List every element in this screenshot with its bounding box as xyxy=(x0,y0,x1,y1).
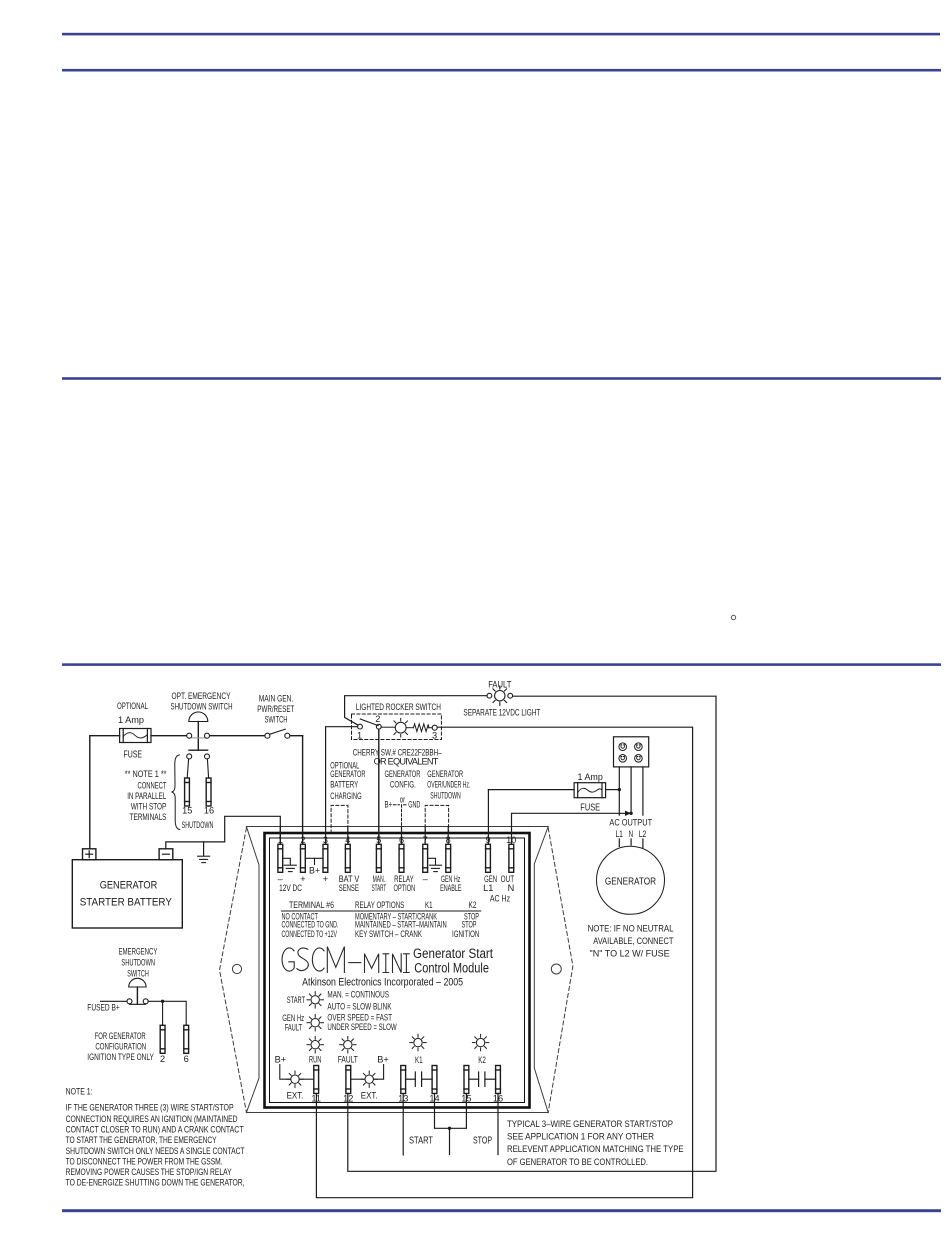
svg-text:OVER SPEED = FAST: OVER SPEED = FAST xyxy=(327,1013,392,1023)
svg-text:OVER/UNDER Hz.: OVER/UNDER Hz. xyxy=(427,780,470,790)
svg-text:TERMINALS: TERMINALS xyxy=(130,812,167,822)
terminal 13 xyxy=(401,1066,406,1094)
svg-text:CONTACT CLOSER TO RUN) AND A C: CONTACT CLOSER TO RUN) AND A CRANK CONTA… xyxy=(66,1125,244,1135)
battery BT1 labels xyxy=(80,880,173,909)
svg-text:–: – xyxy=(423,874,429,884)
wire: fault lamp to rocker contact 1 xyxy=(345,696,487,725)
rocker contact 3 xyxy=(432,725,437,730)
wire: outlet N drop xyxy=(630,767,632,813)
svg-text:FOR GENERATOR: FOR GENERATOR xyxy=(95,1031,146,1041)
fuse F1 label OPTIONAL 1 Amp xyxy=(117,701,148,725)
terminal 15 (shutdown) xyxy=(185,778,190,806)
fuse F1 (optional 1 Amp fuse) xyxy=(120,729,151,743)
svg-text:KEY SWITCH – CRANK: KEY SWITCH – CRANK xyxy=(355,929,423,939)
svg-text:MAN. = CONTINOUS: MAN. = CONTINOUS xyxy=(327,990,389,1000)
ground (terminal 1) xyxy=(284,865,296,871)
svg-text:16: 16 xyxy=(204,806,214,816)
svg-text:K2: K2 xyxy=(469,900,477,910)
svg-text:PWR/RESET: PWR/RESET xyxy=(257,704,294,714)
svg-text:3: 3 xyxy=(323,835,328,845)
svg-text:3: 3 xyxy=(432,730,437,740)
svg-text:START: START xyxy=(409,1136,433,1147)
svg-text:SHUTDOWN SWITCH: SHUTDOWN SWITCH xyxy=(171,702,233,712)
svg-text:SEPARATE 12VDC LIGHT: SEPARATE 12VDC LIGHT xyxy=(463,708,540,718)
mounting plate of module (solid outline) xyxy=(246,827,548,1113)
ground (terminal 7) xyxy=(430,865,442,871)
wire: terminal 12 to EXT led to B+ xyxy=(351,1065,384,1080)
relay contact K1 (between 13 and 14) xyxy=(406,1072,433,1086)
wire: fused B+ feed to switch S3 xyxy=(101,1000,128,1002)
svg-text:or: or xyxy=(400,794,405,804)
LED EXT (run) xyxy=(287,1071,303,1087)
terminal 9 xyxy=(486,844,491,872)
svg-text:IGNITION TYPE ONLY: IGNITION TYPE ONLY xyxy=(87,1052,154,1062)
svg-text:SHUTDOWN: SHUTDOWN xyxy=(430,791,461,801)
module U1 inner border xyxy=(270,838,525,1103)
pin 3 wire (from rocker contact 1) xyxy=(326,727,358,845)
LED K1 xyxy=(410,1034,426,1050)
svg-text:MAINTAINED – START–MAINTAIN: MAINTAINED – START–MAINTAIN xyxy=(355,920,447,930)
svg-text:FAULT: FAULT xyxy=(338,1055,358,1065)
terminal 14 xyxy=(432,1066,437,1094)
svg-text:TYPICAL 3–WIRE GENERATOR START: TYPICAL 3–WIRE GENERATOR START/STOP xyxy=(507,1119,673,1129)
svg-text:TO DISCONNECT THE POWER FROM T: TO DISCONNECT THE POWER FROM THE GSSM. xyxy=(66,1156,223,1166)
svg-text:N: N xyxy=(629,829,634,839)
pin 4 stub xyxy=(347,827,349,845)
wire: B+ to EXT led to terminal 11 xyxy=(280,1065,314,1080)
LED RUN xyxy=(307,1037,323,1053)
node: junction 14-15 xyxy=(448,1127,451,1130)
svg-text:1 Amp: 1 Amp xyxy=(578,772,603,782)
svg-text:OF GENERATOR TO BE CONTROLLED.: OF GENERATOR TO BE CONTROLLED. xyxy=(507,1157,648,1167)
wire: ground stub from battery minus wire xyxy=(203,842,205,856)
svg-text:REMOVING POWER CAUSES THE STOP: REMOVING POWER CAUSES THE STOP/IGN RELAY xyxy=(66,1167,232,1177)
LED FAULT xyxy=(340,1037,356,1053)
svg-text:TO DE-ENERGIZE SHUTTING DOWN T: TO DE-ENERGIZE SHUTTING DOWN THE GENERAT… xyxy=(66,1178,245,1188)
svg-text:RUN: RUN xyxy=(309,1055,321,1065)
terminal 1 xyxy=(278,844,283,872)
LED START xyxy=(307,992,323,1008)
note brace { xyxy=(172,755,180,830)
switch S1 (opt. emergency shutdown, mushroom head, 2 poles) xyxy=(187,712,210,778)
table underline xyxy=(282,910,481,912)
svg-text:1: 1 xyxy=(357,730,362,740)
pin 6 stub xyxy=(401,827,403,845)
svg-text:B+: B+ xyxy=(385,800,393,810)
page rule (blue) middle xyxy=(62,377,941,380)
wire: terminal 12 loop to fault lamp xyxy=(348,696,716,1171)
outlet (separate 12VDC outlet) xyxy=(614,737,649,767)
note TYPICAL 3-WIRE text xyxy=(507,1119,684,1167)
svg-text:OPT. EMERGENCY: OPT. EMERGENCY xyxy=(172,691,231,701)
wire: pin 9 to fuse F2 xyxy=(488,789,574,791)
table: relay options header xyxy=(289,900,477,910)
wire: terminal 2-3 B+ link xyxy=(305,858,323,864)
lamp FAULT (separate 12VDC light) xyxy=(487,686,513,705)
svg-text:STOP: STOP xyxy=(473,1136,492,1147)
svg-text:Control Module: Control Module xyxy=(414,961,489,976)
page rule (blue) bottom xyxy=(62,1209,941,1212)
svg-text:L1: L1 xyxy=(615,829,623,839)
generator G1 circle xyxy=(597,846,665,914)
mounting hole left xyxy=(232,964,241,973)
svg-text:K1: K1 xyxy=(415,1055,423,1065)
terminal 4 xyxy=(345,844,350,872)
note text CONNECT IN PARALLEL xyxy=(125,769,167,822)
svg-text:START: START xyxy=(372,883,387,893)
wire: terminal 16 lead xyxy=(497,1094,499,1155)
note NOTE: IF NO NEUTRAL xyxy=(588,924,674,959)
wire: terminal 11 loop to rocker contact 3 xyxy=(316,727,692,1197)
wire: battery + to fuse to switches (main 12V feed) xyxy=(90,736,303,849)
terminal 6 xyxy=(399,844,404,872)
svg-text:LIGHTED ROCKER SWITCH: LIGHTED ROCKER SWITCH xyxy=(356,702,441,712)
svg-text:8: 8 xyxy=(446,835,451,845)
svg-text:SHUTDOWN: SHUTDOWN xyxy=(182,820,214,830)
battery BT1 (generator starter battery) xyxy=(72,849,182,928)
wire: terminals 14-15 joined STOP lead xyxy=(435,1094,467,1155)
wire: switch S3 to terminals 2 and 6 xyxy=(148,1001,186,1025)
svg-text:6: 6 xyxy=(399,835,404,845)
terminal numbers 11-16 xyxy=(311,1094,503,1104)
svg-text:CONNECTED TO +12V: CONNECTED TO +12V xyxy=(282,929,338,939)
svg-text:K1: K1 xyxy=(425,900,433,910)
node: N junction dot xyxy=(629,812,632,815)
wire: terminal1 internal ground xyxy=(283,858,291,865)
svg-text:START: START xyxy=(287,995,306,1005)
svg-text:B+: B+ xyxy=(309,866,320,876)
wire: outlet L2 drop xyxy=(642,767,644,815)
ground (battery minus) xyxy=(198,856,210,862)
label FOR GENERATOR CONFIGURATION IGNITION TYPE ONLY xyxy=(87,1031,154,1062)
svg-text:AVAILABLE, CONNECT: AVAILABLE, CONNECT xyxy=(593,936,674,946)
svg-text:EXT.: EXT. xyxy=(287,1091,304,1101)
svg-text:L2: L2 xyxy=(639,829,647,839)
svg-text:TERMINAL #6: TERMINAL #6 xyxy=(289,900,334,910)
svg-text:CONFIGURATION: CONFIGURATION xyxy=(95,1042,146,1052)
terminal 16 (shutdown) xyxy=(206,778,211,806)
wire: terminal 7 internal ground xyxy=(428,858,436,865)
svg-text:1 Amp: 1 Amp xyxy=(118,715,144,725)
svg-text:CONFIG.: CONFIG. xyxy=(390,780,416,790)
svg-text:7: 7 xyxy=(423,835,428,845)
svg-text:** NOTE 1 **: ** NOTE 1 ** xyxy=(125,769,167,779)
svg-text:CONNECT: CONNECT xyxy=(138,781,167,791)
switch S1 label OPT. EMERGENCY SHUTDOWN SWITCH xyxy=(171,691,233,712)
svg-text:15: 15 xyxy=(182,806,192,816)
dashed box: over/under Hz shutdown (pins 7-8) xyxy=(425,805,448,833)
svg-text:SENSE: SENSE xyxy=(339,883,359,893)
terminal 6 (ignition config) xyxy=(184,1025,189,1053)
svg-text:AUTO = SLOW BLINK: AUTO = SLOW BLINK xyxy=(327,1002,392,1012)
terminal 16 xyxy=(496,1066,501,1094)
svg-text:BATTERY: BATTERY xyxy=(330,780,358,790)
LED GEN Hz FAULT xyxy=(307,1015,323,1031)
svg-text:5: 5 xyxy=(376,835,381,845)
svg-text:L1: L1 xyxy=(483,883,493,893)
terminal function labels row 2 xyxy=(279,883,514,904)
terminal 2 xyxy=(301,844,306,872)
module U1 GSCM-MINI outer case xyxy=(265,833,530,1108)
svg-text:RELEVENT APPLICATION MATCHING: RELEVENT APPLICATION MATCHING THE TYPE xyxy=(507,1144,684,1154)
node: small degree circle xyxy=(731,615,735,619)
svg-text:SEE APPLICATION 1 FOR ANY OTHE: SEE APPLICATION 1 FOR ANY OTHER xyxy=(507,1132,654,1142)
terminal 5 xyxy=(376,844,381,872)
wire: terminal 13 START lead xyxy=(402,1094,404,1156)
rocker internal resistor xyxy=(406,724,432,732)
svg-text:OPTIONAL: OPTIONAL xyxy=(117,701,148,711)
wire: L1 stub to generator xyxy=(618,839,620,847)
svg-text:10: 10 xyxy=(506,835,516,845)
svg-text:MAIN GEN.: MAIN GEN. xyxy=(259,694,294,704)
svg-text:"N" TO L2 W/ FUSE: "N" TO L2 W/ FUSE xyxy=(590,949,670,959)
terminal 3 xyxy=(323,844,328,872)
wire: L2 stub to generator xyxy=(642,839,644,848)
svg-text:FAULT: FAULT xyxy=(285,1022,303,1032)
svg-text:OR EQUIVALENT: OR EQUIVALENT xyxy=(374,757,439,767)
svg-text:TO START THE GENERATOR, THE EM: TO START THE GENERATOR, THE EMERGENCY xyxy=(66,1135,217,1145)
switch S2 label MAIN GEN. PWR/RESET SWITCH xyxy=(257,694,294,725)
svg-text:N: N xyxy=(508,883,515,893)
svg-text:WITH STOP: WITH STOP xyxy=(131,802,166,812)
rocker switch dashed box xyxy=(352,714,442,740)
label GENERATOR OVER/UNDER Hz SHUTDOWN xyxy=(427,769,470,800)
svg-text:FAULT: FAULT xyxy=(488,680,512,690)
rocker switch S4 contacts and blade xyxy=(358,719,382,729)
table row 3 xyxy=(282,929,480,939)
switch S3 labels EMERGENCY SHUTDOWN SWITCH xyxy=(119,947,158,979)
LED row labels xyxy=(309,1055,486,1066)
svg-text:IF THE GENERATOR THREE (3) WIR: IF THE GENERATOR THREE (3) WIRE START/ST… xyxy=(66,1102,234,1112)
page rule (blue) top 1 xyxy=(62,33,940,36)
arrow head on N wire xyxy=(625,811,631,816)
svg-text:4: 4 xyxy=(345,835,350,845)
svg-text:NOTE: IF NO NEUTRAL: NOTE: IF NO NEUTRAL xyxy=(588,924,674,934)
svg-text:CONNECTION REQUIRES AN IGNITIO: CONNECTION REQUIRES AN IGNITION (MAINTAI… xyxy=(66,1114,238,1124)
logo GSCM-MINI (single stroke lettering) xyxy=(282,947,409,973)
terminal 10 xyxy=(509,844,514,872)
svg-text:GENERATOR: GENERATOR xyxy=(427,769,463,779)
svg-text:6: 6 xyxy=(184,1054,189,1064)
svg-text:GENERATOR: GENERATOR xyxy=(330,769,365,779)
wire: battery minus to module terminal 1 xyxy=(166,816,280,849)
svg-text:Generator Start: Generator Start xyxy=(413,946,493,961)
svg-text:SHUTDOWN SWITCH ONLY NEEDS A S: SHUTDOWN SWITCH ONLY NEEDS A SINGLE CONT… xyxy=(66,1146,245,1156)
note NOTE 1 text block xyxy=(66,1087,245,1188)
svg-text:EMERGENCY: EMERGENCY xyxy=(119,947,158,957)
svg-text:SHUTDOWN: SHUTDOWN xyxy=(121,958,155,968)
svg-text:CHARGING: CHARGING xyxy=(330,791,361,801)
node: junction fuse to L1 xyxy=(618,788,621,791)
pin 9 wire (GEN OUT L1 to fuse) xyxy=(487,790,489,845)
svg-text:GENERATOR: GENERATOR xyxy=(385,769,421,779)
terminal 15 xyxy=(464,1066,469,1094)
svg-text:SWITCH: SWITCH xyxy=(265,715,288,725)
wire: fuse F2 to outlet L1 xyxy=(606,789,620,791)
page rule (blue) top 2 xyxy=(62,69,941,72)
label GENERATOR CONFIG. xyxy=(385,769,421,790)
label Generator Start Control Module xyxy=(413,946,493,976)
svg-text:CONNECTED TO GND.: CONNECTED TO GND. xyxy=(282,920,339,930)
svg-text:B+: B+ xyxy=(275,1055,287,1065)
terminal 8 xyxy=(446,844,451,872)
node B+ or GND selector for pin 6 xyxy=(385,794,421,833)
terminal 2 (ignition config) xyxy=(160,1025,165,1053)
terminal 12 xyxy=(346,1066,351,1094)
svg-text:GENERATOR: GENERATOR xyxy=(605,877,656,888)
terminal 7 xyxy=(423,844,428,872)
svg-text:+: + xyxy=(323,874,328,884)
page rule (blue) above diagram xyxy=(62,663,941,666)
terminal function labels row 1 xyxy=(278,874,515,884)
svg-text:2: 2 xyxy=(375,714,380,724)
dashed box: optional generator battery charging xyxy=(331,805,348,833)
pin 8 stub xyxy=(447,827,449,845)
pin 10 wire (N to outlet) xyxy=(512,813,626,844)
pin 5 wire (from rocker contact 2) xyxy=(378,729,380,844)
svg-text:EXT.: EXT. xyxy=(361,1091,378,1101)
svg-text:12V DC: 12V DC xyxy=(279,883,302,893)
terminal 11 xyxy=(314,1066,319,1094)
svg-text:Atkinson Electronics Incorpora: Atkinson Electronics Incorporated – 2005 xyxy=(302,977,463,989)
relay contact K2 (between 15 and 16) xyxy=(469,1072,496,1086)
svg-text:OPTION: OPTION xyxy=(394,883,416,893)
svg-text:9: 9 xyxy=(485,835,490,845)
wire: outlet L1 drop xyxy=(618,767,620,815)
pin 1 wire xyxy=(279,827,281,845)
svg-text:IGNITION: IGNITION xyxy=(452,929,479,939)
table row 1 xyxy=(282,912,480,922)
svg-text:FUSED B+: FUSED B+ xyxy=(87,1003,119,1013)
node: junction at switch output xyxy=(161,1000,164,1003)
svg-text:B+: B+ xyxy=(377,1055,389,1065)
rocker internal lamp xyxy=(381,718,407,737)
LED EXT (fault) xyxy=(361,1071,377,1087)
pin 7 stub xyxy=(424,827,426,845)
svg-text:FUSE: FUSE xyxy=(124,750,143,761)
mounting hole right xyxy=(551,964,561,974)
svg-text:AC OUTPUT: AC OUTPUT xyxy=(609,818,652,828)
terminal numbers 1-10 xyxy=(278,835,517,845)
svg-text:IN PARALLEL: IN PARALLEL xyxy=(127,791,166,801)
switch S3 (emergency shutdown, mushroom head) xyxy=(127,978,148,1004)
svg-text:STOP: STOP xyxy=(462,920,477,930)
svg-text:UNDER SPEED = SLOW: UNDER SPEED = SLOW xyxy=(327,1022,397,1032)
svg-text:2: 2 xyxy=(300,835,305,845)
svg-text:K2: K2 xyxy=(478,1055,486,1065)
svg-text:GENERATOR: GENERATOR xyxy=(100,880,158,892)
table row 2 xyxy=(282,920,477,930)
svg-text:RELAY OPTIONS: RELAY OPTIONS xyxy=(355,900,404,910)
wire: N stub to generator xyxy=(630,839,632,845)
outlet slots xyxy=(621,745,640,760)
switch S2 (main gen pwr/reset) xyxy=(265,729,290,738)
LED K2 xyxy=(472,1034,488,1050)
svg-text:NOTE 1:: NOTE 1: xyxy=(66,1087,93,1097)
svg-text:FUSE: FUSE xyxy=(580,803,600,814)
svg-text:SWITCH: SWITCH xyxy=(127,969,149,979)
svg-text:ENABLE: ENABLE xyxy=(440,883,461,893)
pin 2 wire (from pwr/reset switch) xyxy=(302,736,304,845)
svg-text:AC Hz: AC Hz xyxy=(490,893,511,903)
svg-text:STARTER BATTERY: STARTER BATTERY xyxy=(80,897,173,909)
svg-text:1: 1 xyxy=(278,835,283,845)
mounting plate fold-out flanges (dashed) xyxy=(220,828,573,1112)
fuse F2 (AC output 1 Amp) xyxy=(574,783,606,798)
svg-text:GND: GND xyxy=(408,800,420,810)
svg-text:2: 2 xyxy=(160,1054,165,1064)
label OPTIONAL GENERATOR BATTERY CHARGING xyxy=(330,760,365,801)
